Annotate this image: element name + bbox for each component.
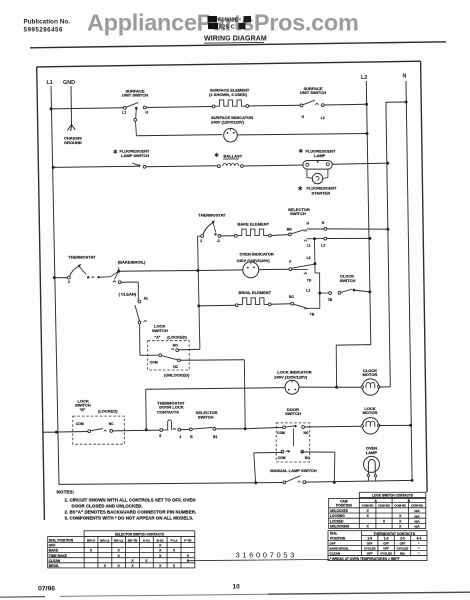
blade selector BR-H — [291, 230, 304, 234]
svg-text:BR: BR — [287, 227, 292, 231]
svg-text:L2: L2 — [321, 116, 325, 120]
terminal bake element right — [269, 234, 272, 237]
model number block — [208, 16, 252, 30]
svg-text:BC: BC — [289, 295, 294, 299]
svg-text:NO: NO — [173, 343, 178, 347]
terminal NO lockA — [176, 349, 179, 352]
wire lockA NC out — [180, 359, 244, 362]
svg-text:4: 4 — [179, 435, 181, 439]
terminal BC selector — [291, 302, 294, 305]
node L3 selector — [313, 262, 316, 265]
terminal surface element right — [246, 105, 249, 108]
terminal bake element left — [234, 234, 237, 237]
wire N bus tap — [386, 101, 405, 103]
wire L2 end across — [336, 344, 371, 347]
svg-text:LAMP: LAMP — [366, 450, 378, 455]
wire switch to ballast — [146, 166, 218, 167]
node L2 clock row — [368, 290, 371, 293]
wire N contact to N feed — [327, 228, 388, 230]
thermostat contact 2-3 — [198, 235, 201, 237]
svg-text:-2: -2 — [217, 239, 220, 243]
wire clock motor to N feed — [379, 386, 391, 388]
terminal B selector — [189, 428, 192, 431]
wire bottom row right — [306, 480, 413, 482]
wire SW1 to surface element — [146, 106, 212, 109]
wire lock indicator down to lock row — [145, 389, 148, 430]
lamp oven indicator — [243, 262, 259, 278]
wire surface indicator to L2 — [237, 134, 367, 135]
blade selector A1 — [135, 305, 140, 321]
wire border to L1 lock row — [42, 431, 55, 433]
wire clock switch to L2 — [354, 290, 370, 292]
svg-text:LAMP: LAMP — [314, 153, 326, 158]
wire to clock switch — [321, 292, 329, 294]
svg-text:CONTACTS: CONTACTS — [157, 409, 179, 414]
svg-text:BK-L2: BK-L2 — [114, 538, 123, 542]
resistor bake element — [238, 229, 269, 236]
part number underline — [187, 559, 330, 560]
motor lock M2 — [361, 418, 380, 434]
svg-text:TIME BAKE: TIME BAKE — [49, 554, 68, 558]
wire lockA NC down — [243, 360, 246, 429]
svg-text:OVEN INDICATOR: OVEN INDICATOR — [240, 251, 274, 256]
svg-text:GND: GND — [63, 80, 75, 86]
svg-text:MOTOR: MOTOR — [363, 410, 378, 415]
svg-text:A-A1: A-A1 — [143, 538, 150, 542]
svg-text:(BAKE/BROIL): (BAKE/BROIL) — [118, 259, 146, 264]
terminal COM lockA — [159, 354, 162, 357]
terminal NC lockA — [178, 359, 181, 362]
svg-text:(LOCKED): (LOCKED) — [98, 409, 118, 414]
svg-text:* BREAK AT OVEN TEMPERATURES >: * BREAK AT OVEN TEMPERATURES > 550°F — [330, 557, 400, 561]
svg-text:OFF: OFF — [400, 542, 406, 546]
label fluorescent lamp switch asterisk — [114, 150, 118, 154]
wire SW1 second pole drop — [135, 109, 138, 119]
svg-text:CLEAN: CLEAN — [49, 559, 61, 563]
node lock row left — [145, 428, 148, 431]
svg-text:SWITCH: SWITCH — [290, 211, 306, 216]
terminal A1 selector — [138, 300, 141, 303]
svg-text:THERMOSTAT: THERMOSTAT — [68, 255, 96, 260]
wire L2 end down — [335, 345, 337, 387]
lamp oven — [364, 456, 380, 481]
wire bake/broil tick — [118, 267, 120, 271]
svg-text:COM: COM — [277, 431, 285, 435]
table selector switch contacts — [48, 531, 195, 568]
svg-text:L2: L2 — [306, 289, 310, 293]
wire node to clock motor — [337, 386, 362, 388]
wire fluorescent lamp to N feed — [332, 163, 388, 164]
blade selector P to L3 — [292, 264, 314, 268]
node lamp row mid — [333, 481, 336, 484]
svg-text:L2: L2 — [361, 75, 367, 81]
underline WIRING DIAGRAM — [204, 41, 264, 44]
svg-text:SWITCH: SWITCH — [198, 415, 214, 420]
node L1 row3 — [52, 166, 55, 169]
svg-text:240V (120V/120V): 240V (120V/120V) — [274, 375, 308, 380]
svg-text:TB: TB — [310, 313, 315, 317]
svg-text:UNLOCKED: UNLOCKED — [330, 509, 349, 513]
svg-text:LOCKED: LOCKED — [330, 519, 344, 523]
svg-text:UNLOCKING: UNLOCKING — [330, 525, 350, 529]
switch SW2 surface unit — [300, 104, 303, 107]
wire L contact to L2 bus — [327, 237, 370, 239]
terminal clock switch left — [329, 292, 332, 295]
svg-text:(1 SHOWN, 4 USED): (1 SHOWN, 4 USED) — [209, 92, 248, 97]
terminal P selector — [289, 268, 292, 271]
svg-text:1-5: 1-5 — [367, 537, 372, 541]
svg-text:F0502E: F0502E — [218, 18, 238, 24]
table lock switch contacts — [329, 492, 426, 528]
terminal SW1 pole2 — [134, 118, 137, 121]
svg-text:Publication No.: Publication No. — [24, 19, 71, 26]
terminal COM door top — [283, 426, 286, 429]
svg-text:(UNLOCKED): (UNLOCKED) — [164, 373, 190, 378]
wire bake element to selector BR — [271, 234, 288, 237]
diagram border left — [37, 67, 45, 520]
lamp surface indicator — [224, 128, 238, 142]
svg-text:MANUAL LAMP SWITCH: MANUAL LAMP SWITCH — [270, 468, 317, 473]
svg-text:L2: L2 — [321, 244, 325, 248]
svg-text:240V (120V/120V): 240V (120V/120V) — [211, 119, 245, 124]
svg-text:SWITCH: SWITCH — [152, 328, 168, 333]
motor clock M1 — [361, 379, 380, 395]
terminal NC door — [301, 450, 304, 453]
svg-text:07/96: 07/96 — [38, 586, 55, 593]
svg-text:THERMOSTAT CONTACTS: THERMOSTAT CONTACTS — [374, 532, 416, 536]
lock switch B dashed box — [73, 416, 125, 444]
svg-text:SWITCH: SWITCH — [75, 403, 91, 408]
terminal N selector — [324, 228, 327, 231]
svg-text:COM-NC: COM-NC — [394, 504, 407, 508]
svg-text:BAKE ELEMENT: BAKE ELEMENT — [238, 221, 270, 226]
svg-text:5: 5 — [159, 434, 161, 438]
wire L1 to lock switch B — [58, 431, 88, 434]
wire door COM bottom left — [254, 451, 283, 454]
node door blade pivot — [294, 425, 296, 427]
terminal COM door bottom — [281, 450, 284, 453]
svg-text:L3: L3 — [307, 256, 311, 260]
svg-text:TB: TB — [328, 298, 333, 302]
label ballast asterisk — [215, 153, 219, 157]
scan line bottom middle — [60, 594, 268, 596]
svg-text:COM: COM — [76, 422, 84, 426]
svg-text:BROIL ELEMENT: BROIL ELEMENT — [239, 290, 272, 295]
node selector L1 column — [313, 237, 316, 240]
node bake/broil — [117, 270, 120, 273]
svg-text:( CLEAN): ( CLEAN) — [119, 291, 137, 296]
svg-text:LOCKING: LOCKING — [330, 514, 345, 518]
blade door switch top — [285, 426, 294, 427]
wire oven indicator to P — [259, 268, 289, 270]
svg-text:2: 2 — [68, 280, 70, 284]
contact NC mark lockB — [104, 430, 107, 431]
wire L1 bus — [51, 86, 59, 484]
terminal COM lockB — [88, 430, 91, 433]
fluorescent starter — [312, 173, 322, 183]
svg-text:3. COMPONENTS WITH * DO NOT AP: 3. COMPONENTS WITH * DO NOT APPEAR ON AL… — [65, 515, 194, 520]
svg-text:2-3: 2-3 — [400, 537, 405, 541]
wire lockA NO out — [179, 348, 200, 351]
wire drop to indicator row — [135, 121, 138, 136]
wire bake/broil row — [119, 270, 198, 273]
node N lock motor — [409, 424, 412, 427]
wire lockB to door lock contact — [113, 429, 160, 432]
wire selector to lock switch A — [139, 324, 141, 356]
svg-text:(LOCKED): (LOCKED) — [167, 334, 187, 339]
node L2 row2 — [366, 132, 369, 135]
wire door NO to lock motor — [305, 425, 363, 428]
node N feed selector row — [386, 228, 389, 231]
svg-text:B-S1: B-S1 — [157, 538, 164, 542]
svg-text:GROUND: GROUND — [64, 140, 82, 145]
node N feed row3 — [386, 162, 389, 165]
wire L1 to thermostat — [54, 277, 67, 279]
diagram border right — [421, 61, 428, 492]
contact H selector — [304, 230, 307, 232]
wire thermostat to bake element — [221, 235, 235, 237]
wire to selector B — [181, 429, 190, 431]
svg-text:BK-TB: BK-TB — [128, 538, 138, 542]
svg-text:NO: NO — [304, 431, 309, 435]
node clock switch out — [353, 289, 356, 292]
switch manual lamp — [283, 481, 286, 484]
blade clock switch — [341, 289, 353, 292]
svg-text:N: N — [403, 74, 407, 80]
wire door NC right — [301, 451, 335, 453]
svg-text:LAMP SWITCH: LAMP SWITCH — [121, 153, 149, 158]
svg-text:A1: A1 — [144, 297, 148, 301]
svg-text:OFF: OFF — [330, 542, 336, 546]
blade selector BC — [294, 304, 306, 308]
svg-text:L1: L1 — [122, 111, 126, 115]
svg-text:TD: TD — [307, 279, 312, 283]
lamp lock indicator — [285, 380, 299, 394]
svg-text:10: 10 — [233, 584, 241, 591]
svg-text:P-TB: P-TB — [184, 538, 192, 542]
node clock motor in — [335, 386, 338, 389]
switch fluorescent lamp — [132, 163, 139, 166]
label fluorescent starter asterisk — [298, 186, 302, 190]
node N top — [405, 101, 408, 104]
blade to clean contact — [115, 273, 118, 280]
svg-text:OFF: OFF — [383, 542, 389, 546]
svg-text:SWITCH: SWITCH — [285, 411, 301, 416]
terminal selector A — [138, 321, 141, 324]
contact selector A mark — [144, 320, 147, 322]
terminal B1 selector — [213, 428, 216, 431]
contact NO mark lockA — [171, 349, 174, 350]
svg-text:BR-H: BR-H — [87, 538, 95, 542]
wire H to N contact — [307, 228, 324, 230]
terminal NO door — [302, 426, 305, 429]
svg-text:MOTOR: MOTOR — [363, 372, 378, 377]
contact TB mark — [304, 308, 307, 310]
table thermostat contacts — [328, 531, 427, 561]
svg-text:DIAL POSITION: DIAL POSITION — [49, 538, 74, 542]
node broil row tap — [197, 304, 200, 307]
contact clean mark — [113, 281, 116, 283]
wire surface element to SW2 — [249, 104, 300, 107]
terminal clock switch right — [338, 291, 341, 294]
svg-text:OFF: OFF — [367, 542, 373, 546]
lock switch A dashed box — [148, 341, 190, 370]
wire lock motor to N — [379, 424, 409, 426]
svg-text:CLEAN: CLEAN — [330, 552, 341, 556]
wire broil element to BC — [271, 303, 291, 305]
svg-text:F25 C: F25 C — [219, 24, 236, 30]
svg-text:N/A: N/A — [415, 525, 421, 529]
blade lock switch A — [162, 356, 178, 360]
svg-text:316007053: 316007053 — [236, 550, 297, 559]
wire N feed vertical — [386, 102, 390, 387]
terminal surface element left — [212, 105, 215, 108]
svg-text:POSITION: POSITION — [336, 503, 352, 507]
contact L selector — [304, 240, 307, 242]
terminal L2 selector — [324, 237, 327, 240]
node L2 selector row — [368, 237, 371, 240]
fluorescent lamp tube — [303, 161, 332, 170]
svg-text:CYCLES: CYCLES — [380, 552, 392, 556]
wire to surface indicator lamp — [136, 135, 222, 136]
node thermostat2 drop — [196, 269, 199, 272]
wire SW2 to L2 bus — [324, 103, 366, 106]
svg-text:NC: NC — [305, 456, 310, 460]
svg-text:COM-NC: COM-NC — [362, 504, 375, 508]
terminal clean contact — [118, 281, 121, 284]
svg-text:SWITCH: SWITCH — [340, 278, 356, 283]
svg-text:POSITION: POSITION — [330, 537, 346, 541]
svg-text:“A”: “A” — [155, 335, 161, 339]
svg-text:STARTER: STARTER — [312, 190, 331, 195]
terminal BR selector — [289, 233, 292, 236]
svg-text:UNIT SWITCH: UNIT SWITCH — [300, 90, 326, 95]
resistor surface element — [215, 100, 246, 106]
wire L2 bus — [366, 81, 371, 345]
wire lock indicator row — [146, 388, 285, 390]
wire selector column vertical — [307, 240, 320, 308]
wire selector B1 to node — [216, 428, 244, 430]
wire door COM down to lamp row — [254, 453, 256, 483]
wire bottom row left — [59, 483, 283, 485]
svg-text:LOCK SWITCH CONTACTS: LOCK SWITCH CONTACTS — [372, 493, 413, 497]
node L1 lock row — [55, 431, 58, 434]
svg-text:COM-NO: COM-NO — [378, 504, 391, 508]
svg-text:WIRING DIAGRAM: WIRING DIAGRAM — [204, 36, 267, 43]
svg-text:CYCLES: CYCLES — [364, 547, 376, 551]
label fluorescent lamp asterisk — [299, 149, 303, 153]
svg-text:“B”: “B” — [80, 408, 86, 412]
svg-text:N/A: N/A — [415, 514, 421, 518]
svg-text:OFF: OFF — [367, 552, 373, 556]
svg-text:OFF: OFF — [383, 547, 389, 551]
contact mark door lock — [173, 428, 176, 430]
node lamp row left — [254, 481, 257, 484]
wire P stub — [292, 268, 308, 270]
svg-text:3-4: 3-4 — [416, 537, 421, 541]
wire L1 to fluorescent lamp switch — [53, 166, 138, 167]
blade selector B — [192, 428, 212, 430]
svg-text:SELECTOR SWITCH CONTACTS: SELECTOR SWITCH CONTACTS — [115, 532, 164, 536]
wire door switch link — [293, 429, 295, 447]
thermostat main contact — [67, 276, 70, 279]
wire thermostat out — [100, 276, 111, 278]
terminal broil element left — [235, 304, 238, 307]
node L1 thermostat row — [53, 276, 56, 279]
svg-text:NC: NC — [173, 365, 178, 369]
svg-text:B1: B1 — [213, 435, 217, 439]
svg-text:UNIT SWITCH: UNIT SWITCH — [122, 92, 148, 97]
wire thermostat2 drop vertical — [198, 236, 200, 349]
wire clean to A1 — [121, 281, 138, 283]
wire L contact stub — [307, 238, 314, 240]
svg-text:L1: L1 — [47, 80, 53, 86]
inductor ballast — [218, 165, 221, 168]
scan line bottom left — [0, 596, 45, 599]
wire broil row — [199, 304, 235, 307]
wire door NC down — [333, 452, 336, 482]
node lock row right — [244, 427, 247, 430]
svg-text:N/A: N/A — [415, 520, 421, 524]
svg-text:BAKE: BAKE — [49, 549, 59, 553]
svg-text:BALLAST: BALLAST — [224, 153, 243, 158]
svg-text:NOTES:: NOTES: — [57, 490, 75, 495]
wire lock indicator to node — [299, 386, 337, 388]
svg-text:DOOR CLOSED AND UNLOCKED.: DOOR CLOSED AND UNLOCKED. — [72, 503, 143, 508]
header rule — [30, 42, 446, 48]
wire to oven indicator lamp — [198, 269, 243, 272]
terminal broil element right — [268, 303, 271, 306]
svg-text:BAKE-BROIL: BAKE-BROIL — [330, 547, 350, 551]
svg-text:2: 2 — [200, 239, 202, 243]
scan line bottom right — [268, 592, 470, 594]
svg-text:P-L2: P-L2 — [171, 538, 178, 542]
svg-text:1. CIRCUIT SHOWN WITH ALL CONT: 1. CIRCUIT SHOWN WITH ALL CONTROLS SET T… — [65, 497, 196, 502]
svg-text:1-3: 1-3 — [384, 537, 389, 541]
svg-text:5995286456: 5995286456 — [24, 26, 63, 33]
door switch dashed box — [276, 423, 310, 462]
wire fluorescent starter drops — [306, 169, 308, 178]
diagram border top — [37, 61, 421, 67]
chassis ground symbol — [67, 122, 75, 131]
svg-text:COM: COM — [150, 361, 158, 365]
svg-text:CYCLES: CYCLES — [397, 547, 409, 551]
svg-text:DIAL: DIAL — [330, 532, 337, 536]
node L1 row1 — [50, 107, 53, 110]
svg-text:2. BS“A” DENOTES BACKGUARD CON: 2. BS“A” DENOTES BACKGUARD CONNECTOR PIN… — [65, 509, 197, 514]
wire L1 to surface unit switch — [51, 108, 123, 109]
svg-text:BR-L2: BR-L2 — [100, 538, 109, 542]
blade lock switch B — [90, 429, 102, 431]
node L2 row1 — [365, 103, 368, 106]
svg-text:N/A: N/A — [415, 509, 421, 513]
contact mark door bottom — [286, 451, 289, 452]
svg-text:NC: NC — [109, 422, 114, 426]
wire GND lead — [70, 86, 73, 124]
contact thermostat door lock (bump) — [160, 429, 163, 432]
svg-text:L1: L1 — [307, 244, 311, 248]
resistor broil element — [238, 298, 268, 305]
svg-text:THERMOSTAT: THERMOSTAT — [198, 213, 226, 218]
wire ballast to fluorescent lamp — [243, 165, 303, 166]
node clock row — [318, 292, 321, 295]
svg-text:OFF: OFF — [49, 544, 56, 548]
node N bottom row — [411, 479, 414, 482]
switch SW1 surface unit — [123, 106, 126, 109]
svg-text:COM-NO: COM-NO — [411, 504, 424, 508]
terminal NC lockB — [110, 430, 113, 433]
svg-text:BROIL: BROIL — [49, 564, 59, 568]
